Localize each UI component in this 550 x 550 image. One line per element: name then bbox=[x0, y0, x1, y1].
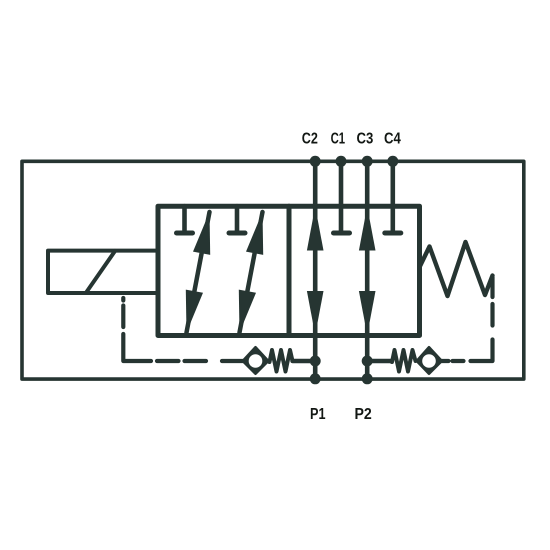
through flow arrow C2-P1 (right cell) bbox=[307, 207, 324, 336]
crossed flow arrow 2 (left cell) bbox=[239, 212, 263, 333]
wire port C4 bbox=[390, 161, 395, 230]
wire port C1 bbox=[339, 161, 344, 230]
check valve right spring bbox=[392, 350, 416, 372]
junction dot C1 bbox=[336, 156, 347, 167]
junction dot P2 pilot bbox=[362, 356, 373, 367]
junction dot P1 pilot bbox=[310, 356, 321, 367]
pilot dashed line left vertical bbox=[123, 298, 151, 361]
blocked stub left cell A bbox=[182, 206, 187, 230]
junction dot C2 bbox=[310, 156, 321, 167]
svg-text:C1: C1 bbox=[331, 131, 346, 148]
crossed flow arrow 1 (left cell) bbox=[186, 212, 210, 333]
check valve left spring bbox=[270, 350, 293, 372]
junction dot P1 border bbox=[310, 373, 321, 384]
return spring bbox=[420, 242, 493, 296]
wire P2 line to right spring bbox=[367, 359, 392, 363]
enclosure border (assembly boundary) bbox=[22, 161, 524, 379]
check valve left (ball in seat) bbox=[243, 348, 268, 374]
wire right check valve outlet bbox=[442, 359, 449, 363]
pilot dashed line right horizontal bbox=[453, 359, 464, 363]
pilot dashed corner right bbox=[471, 340, 493, 362]
valve body (two-position envelope) bbox=[158, 206, 420, 335]
wire port P1 bbox=[313, 336, 318, 380]
lever diagonal bbox=[87, 251, 116, 292]
wire spring to P1 line bbox=[293, 359, 316, 363]
pilot dashed line left horizontal bbox=[157, 359, 243, 363]
through flow arrow C3-P2 (right cell) bbox=[359, 207, 376, 336]
blocked port C4 T-bar bbox=[385, 231, 401, 236]
junction dot C4 bbox=[387, 156, 398, 167]
svg-text:P2: P2 bbox=[355, 406, 372, 423]
wire port P2 bbox=[365, 336, 370, 380]
junction dot C3 bbox=[362, 156, 373, 167]
wire port C3 bbox=[365, 161, 370, 207]
blocked port C1 T-bar bbox=[334, 231, 350, 236]
svg-text:P1: P1 bbox=[310, 406, 326, 423]
svg-text:C3: C3 bbox=[357, 131, 374, 148]
wire port C2 bbox=[313, 161, 318, 207]
pilot dashed line right vertical bbox=[490, 277, 494, 326]
blocked stub left cell B bbox=[235, 206, 240, 230]
junction dot P2 border bbox=[362, 373, 373, 384]
manual lever actuator box bbox=[48, 251, 158, 293]
svg-text:C2: C2 bbox=[302, 131, 318, 148]
check valve right (ball in seat) bbox=[417, 348, 442, 374]
svg-text:C4: C4 bbox=[384, 131, 401, 148]
envelope divider bbox=[287, 206, 292, 335]
